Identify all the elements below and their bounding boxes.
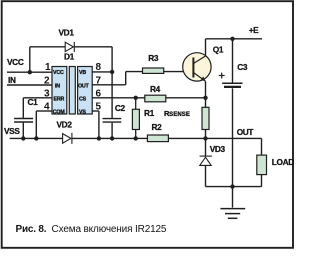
node dot VCC junction <box>28 70 32 74</box>
wire R1 bottom lead <box>135 130 137 139</box>
node dot VB junction <box>110 70 114 74</box>
op-amp/IC D1 IR2125 left field <box>52 67 67 115</box>
wire C1 bottom <box>22 123 24 139</box>
wire RSENSE bottom <box>205 130 207 139</box>
svg-text:OUT: OUT <box>237 127 254 137</box>
svg-text:VB: VB <box>79 70 86 76</box>
wire pin4 COM <box>36 110 52 112</box>
resistor RSENSE <box>202 107 209 129</box>
wire VS rail <box>72 137 147 139</box>
wire VD3 bottom lead <box>205 165 207 186</box>
wire C1 top <box>22 98 24 118</box>
svg-text:VCC: VCC <box>53 70 64 76</box>
wire to R3 <box>126 71 143 73</box>
wire pin7 corner up <box>125 72 127 85</box>
svg-text:COM: COM <box>53 109 66 115</box>
ground bar 1 <box>220 208 245 210</box>
wire VD3 top lead <box>205 138 207 156</box>
svg-text:ERR: ERR <box>54 97 65 103</box>
node dot R1 bottom <box>134 136 138 140</box>
svg-text:VD2: VD2 <box>57 120 73 130</box>
diode VD2 <box>63 133 72 144</box>
op-amp/IC D1 IR2125 right field <box>78 67 93 115</box>
ground bar 3 <box>228 217 238 219</box>
capacitor C1 <box>14 119 33 123</box>
node dot pin5 rail <box>97 136 101 140</box>
resistor LOAD <box>257 155 267 175</box>
resistor R4 <box>145 95 166 102</box>
node dot R1 top <box>134 96 138 100</box>
wire VD1 top right <box>74 46 112 48</box>
svg-text:CS: CS <box>79 97 87 103</box>
wire pin7 OUT <box>92 84 126 86</box>
wire pin6 CS <box>92 97 145 99</box>
wire R1 top lead <box>135 98 137 110</box>
wire pin5 down <box>98 111 100 138</box>
svg-text:IN: IN <box>8 75 16 85</box>
svg-text:D1: D1 <box>64 52 75 62</box>
svg-text:VD3: VD3 <box>210 144 226 154</box>
resistor R1 <box>132 109 139 129</box>
wire VD1 branch up <box>29 47 31 72</box>
capacitor C2 <box>103 119 122 123</box>
wire VD1 top left <box>30 46 65 48</box>
svg-text:IN: IN <box>55 84 60 90</box>
svg-text:5: 5 <box>96 102 102 113</box>
op-amp/IC D1 IR2125 middle field <box>69 67 75 115</box>
svg-text:VS: VS <box>79 109 86 115</box>
svg-text:+E: +E <box>249 25 259 35</box>
capacitor C3 electrolytic <box>222 83 242 87</box>
node dot C1 rail <box>21 136 25 140</box>
wire +E rail <box>206 38 263 40</box>
svg-text:OUT: OUT <box>78 84 90 90</box>
node dot ground <box>230 184 234 188</box>
wire bottom return <box>206 186 262 188</box>
wire pin4 down <box>35 111 37 138</box>
wire R4 to emitter node <box>166 97 206 99</box>
wire C2 bottom <box>111 123 113 139</box>
node dot pin4 rail <box>34 136 38 140</box>
wire pin5 VS <box>92 110 99 112</box>
transistor Q1 <box>183 53 211 81</box>
wire pin8 VB <box>92 71 112 73</box>
ground stem <box>232 187 234 208</box>
wire LOAD top <box>261 138 263 155</box>
svg-text:Q1: Q1 <box>213 44 224 54</box>
svg-text:C2: C2 <box>115 103 126 113</box>
ground bar 2 <box>225 213 240 215</box>
svg-text:C3: C3 <box>237 62 248 72</box>
diode VD1 <box>65 42 74 52</box>
svg-text:1: 1 <box>45 62 51 73</box>
node dot out <box>203 136 207 140</box>
svg-text:R3: R3 <box>148 53 159 63</box>
wire OUT horizontal <box>206 137 262 139</box>
wire collector up <box>205 39 207 56</box>
wire ground rail left <box>10 137 63 139</box>
resistor R3 <box>143 68 164 73</box>
svg-text:R4: R4 <box>150 84 161 94</box>
wire R2 right to out node <box>168 137 205 139</box>
wire VCC input <box>7 71 52 73</box>
wire C3 top lead <box>232 39 234 83</box>
svg-text:VSS: VSS <box>4 126 20 136</box>
svg-text:VCC: VCC <box>7 57 24 67</box>
svg-text:C1: C1 <box>28 97 39 107</box>
wire IN input <box>7 84 52 86</box>
svg-text:VD1: VD1 <box>59 28 75 38</box>
wire LOAD bottom <box>261 175 263 187</box>
wire VB vertical to C2 <box>111 47 113 118</box>
node dot emitter <box>203 96 207 100</box>
svg-text:LOAD: LOAD <box>272 157 294 167</box>
svg-text:RSENSE: RSENSE <box>164 109 190 118</box>
node dot C2 rail <box>110 136 114 140</box>
wire pin3 ERR <box>23 97 52 99</box>
plus mark C3 <box>219 73 225 79</box>
wire R3 to Q1 base <box>164 71 194 73</box>
svg-text:R2: R2 <box>152 122 163 132</box>
wire emitter down <box>205 81 207 107</box>
wire C3 bottom long <box>232 88 234 186</box>
diode VD3 <box>200 156 212 165</box>
resistor R2 <box>147 135 168 142</box>
svg-text:R1: R1 <box>144 108 155 118</box>
node dot C3 top <box>230 37 234 41</box>
svg-text:Рис. 8. Схема включения IR2125: Рис. 8. Схема включения IR2125 <box>16 224 167 235</box>
